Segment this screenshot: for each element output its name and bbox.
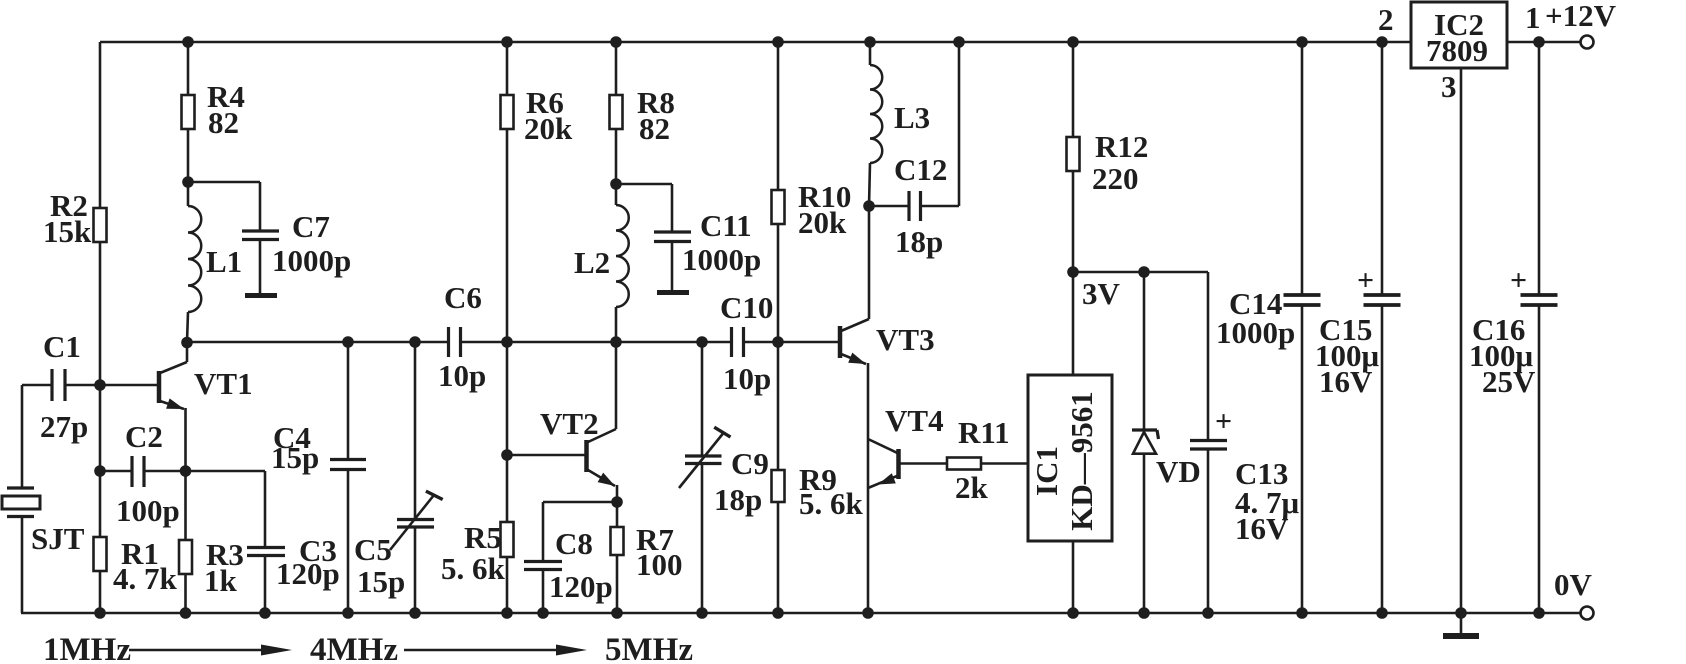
terminal +12V [1581, 36, 1594, 49]
svg-text:15p: 15p [357, 564, 405, 599]
svg-text:18p: 18p [714, 482, 762, 517]
wire base node to VT1 [100, 384, 157, 387]
wire IC2 pin3 [1460, 68, 1463, 613]
svg-text:1MHz: 1MHz [43, 632, 131, 664]
capacitor C1 [66, 384, 100, 387]
svg-text:R12: R12 [1095, 129, 1148, 164]
capacitor C6 [447, 327, 450, 357]
svg-text:1000p: 1000p [682, 242, 761, 277]
svg-text:C12: C12 [894, 152, 947, 187]
ground [1460, 613, 1463, 634]
svg-text:100p: 100p [116, 493, 180, 528]
svg-text:15k: 15k [43, 214, 92, 249]
svg-text:220: 220 [1092, 161, 1139, 196]
node C5 top [409, 336, 421, 348]
svg-text:C6: C6 [444, 280, 482, 315]
svg-text:100: 100 [636, 547, 683, 582]
resistor R8 [615, 42, 618, 95]
svg-text:16V: 16V [1319, 364, 1373, 399]
svg-text:25V: 25V [1482, 364, 1536, 399]
transistor VT2 [584, 440, 589, 472]
svg-text:C8: C8 [555, 526, 593, 561]
diode VD [1143, 272, 1146, 430]
resistor R11 [899, 462, 948, 465]
node VD top [1138, 266, 1150, 278]
resistor R3 [179, 540, 192, 574]
svg-text:C7: C7 [292, 209, 330, 244]
resistor R10 [777, 42, 780, 190]
node VT1 emitter junction [180, 465, 192, 477]
wire left branch vertical [99, 42, 102, 385]
capacitor C10 [730, 327, 733, 357]
wire C6 to R6 node [461, 341, 617, 344]
transistor VT3 [838, 326, 843, 358]
wire bottom 0V rail [21, 612, 1580, 615]
svg-text:1k: 1k [204, 563, 238, 598]
ic IC2 7809 [1411, 2, 1507, 68]
svg-text:120p: 120p [276, 556, 340, 591]
crystal SJT [7, 486, 34, 489]
capacitor C14 [1301, 42, 1304, 295]
arrow 4MHz to 5MHz [404, 649, 566, 652]
svg-text:3V: 3V [1082, 276, 1121, 311]
inductor L2 [615, 184, 618, 205]
resistor R12 [1072, 42, 1075, 137]
node top rail R12 [1067, 36, 1079, 48]
svg-text:VD: VD [1156, 454, 1201, 489]
svg-text:C10: C10 [720, 290, 773, 325]
node C9 top [696, 336, 708, 348]
node top rail R10 [772, 36, 784, 48]
svg-text:KD—9561: KD—9561 [1064, 391, 1099, 531]
svg-text:3: 3 [1441, 69, 1457, 104]
svg-text:C5: C5 [354, 532, 392, 567]
svg-text:+12V: +12V [1545, 0, 1617, 33]
wire C1 to crystal [21, 385, 24, 488]
resistor R6 [506, 42, 509, 95]
node top rail C12 [953, 36, 965, 48]
terminal 0V [1581, 607, 1594, 620]
svg-text:2: 2 [1378, 2, 1394, 37]
wire collector bus [187, 341, 448, 344]
svg-text:VT4: VT4 [885, 403, 944, 438]
svg-text:VT1: VT1 [194, 366, 253, 401]
svg-text:82: 82 [639, 111, 670, 146]
svg-text:+: + [1357, 264, 1374, 297]
node C4 top [342, 336, 354, 348]
svg-text:15p: 15p [271, 440, 319, 475]
svg-text:82: 82 [208, 105, 239, 140]
svg-text:7809: 7809 [1426, 33, 1488, 68]
node R6 mid [501, 336, 513, 348]
svg-text:5. 6k: 5. 6k [799, 486, 864, 521]
node L3 bottom [863, 200, 875, 212]
svg-text:VT2: VT2 [540, 406, 599, 441]
svg-text:1000p: 1000p [1216, 315, 1295, 350]
resistor R9 [777, 342, 780, 613]
node top rail L3 [864, 36, 876, 48]
svg-text:+: + [1510, 264, 1527, 297]
svg-text:C1: C1 [43, 329, 81, 364]
resistor R5 [506, 455, 509, 613]
svg-text:1000p: 1000p [272, 243, 351, 278]
inductor L1 [188, 206, 201, 312]
svg-text:C11: C11 [700, 208, 752, 243]
node C2 left junction [94, 465, 106, 477]
node VT2 emitter [611, 496, 623, 508]
svg-text:R11: R11 [958, 415, 1010, 450]
svg-text:5MHz: 5MHz [605, 632, 693, 664]
transistor VT1 [157, 371, 162, 403]
svg-text:10p: 10p [438, 358, 486, 393]
wire IC2 pin1 to +12V [1507, 41, 1580, 44]
wire 3V bus [1073, 271, 1208, 274]
wire R6 to VT2 base node [506, 342, 509, 455]
capacitor C8 [543, 501, 617, 504]
wire C10 segments [616, 341, 732, 344]
capacitor C5 variable [414, 342, 417, 520]
svg-text:L1: L1 [206, 244, 242, 279]
capacitor C9 variable [701, 342, 704, 456]
capacitor C13 [1207, 272, 1210, 440]
capacitor C2 [100, 470, 132, 473]
node base junction [94, 379, 106, 391]
svg-text:4. 7k: 4. 7k [113, 561, 178, 596]
wire top +9V rail [100, 41, 1411, 44]
svg-text:20k: 20k [798, 205, 847, 240]
svg-text:SJT: SJT [31, 521, 85, 556]
transistor VT4 [896, 449, 901, 479]
capacitor C3 [186, 470, 266, 473]
capacitor C15 [1381, 42, 1384, 295]
node top rail R4 [182, 36, 194, 48]
svg-text:10p: 10p [723, 361, 771, 396]
resistor R4 [187, 42, 190, 95]
node top rail R8 [610, 36, 622, 48]
node VT1 collector [181, 337, 193, 349]
capacitor C4 [347, 342, 350, 459]
svg-text:18p: 18p [895, 224, 943, 259]
wire VT2 base [507, 454, 585, 457]
svg-text:L2: L2 [574, 245, 610, 280]
node top rail C14 [1296, 36, 1308, 48]
svg-text:5. 6k: 5. 6k [441, 551, 506, 586]
svg-text:4MHz: 4MHz [310, 632, 398, 664]
svg-text:1: 1 [1525, 0, 1541, 35]
svg-text:C2: C2 [125, 419, 163, 454]
node L2 bottom [610, 336, 622, 348]
resistor R2 [94, 208, 107, 242]
resistor R7 [616, 502, 619, 613]
svg-text:2k: 2k [955, 470, 989, 505]
capacitor C16 [1538, 42, 1541, 295]
node top rail C16 [1533, 36, 1545, 48]
node L1 top [182, 176, 194, 188]
svg-text:27p: 27p [40, 409, 88, 444]
node VT2 base junction [501, 449, 513, 461]
capacitor C11 [616, 183, 672, 186]
svg-text:120p: 120p [549, 569, 613, 604]
wire down to C2 node [99, 385, 102, 471]
svg-text:20k: 20k [524, 111, 573, 146]
svg-text:0V: 0V [1554, 567, 1593, 602]
svg-text:+: + [1215, 405, 1232, 438]
resistor R1 [99, 471, 102, 613]
capacitor C7 [188, 181, 260, 184]
svg-text:IC1: IC1 [1029, 446, 1064, 496]
capacitor C12 [869, 205, 908, 208]
node top rail C15 [1376, 36, 1388, 48]
node R10 bottom [772, 336, 784, 348]
node 3V [1067, 266, 1079, 278]
svg-text:VT3: VT3 [876, 322, 935, 357]
svg-text:16V: 16V [1235, 511, 1289, 546]
node L2 top [610, 178, 622, 190]
inductor L3 [869, 42, 872, 65]
svg-text:R5: R5 [464, 520, 502, 555]
node top rail R6 [501, 36, 513, 48]
svg-text:C9: C9 [731, 446, 769, 481]
svg-text:L3: L3 [894, 100, 930, 135]
arrow 1MHz to 4MHz [129, 649, 272, 652]
ic IC1 KD-9561 [1072, 272, 1075, 375]
